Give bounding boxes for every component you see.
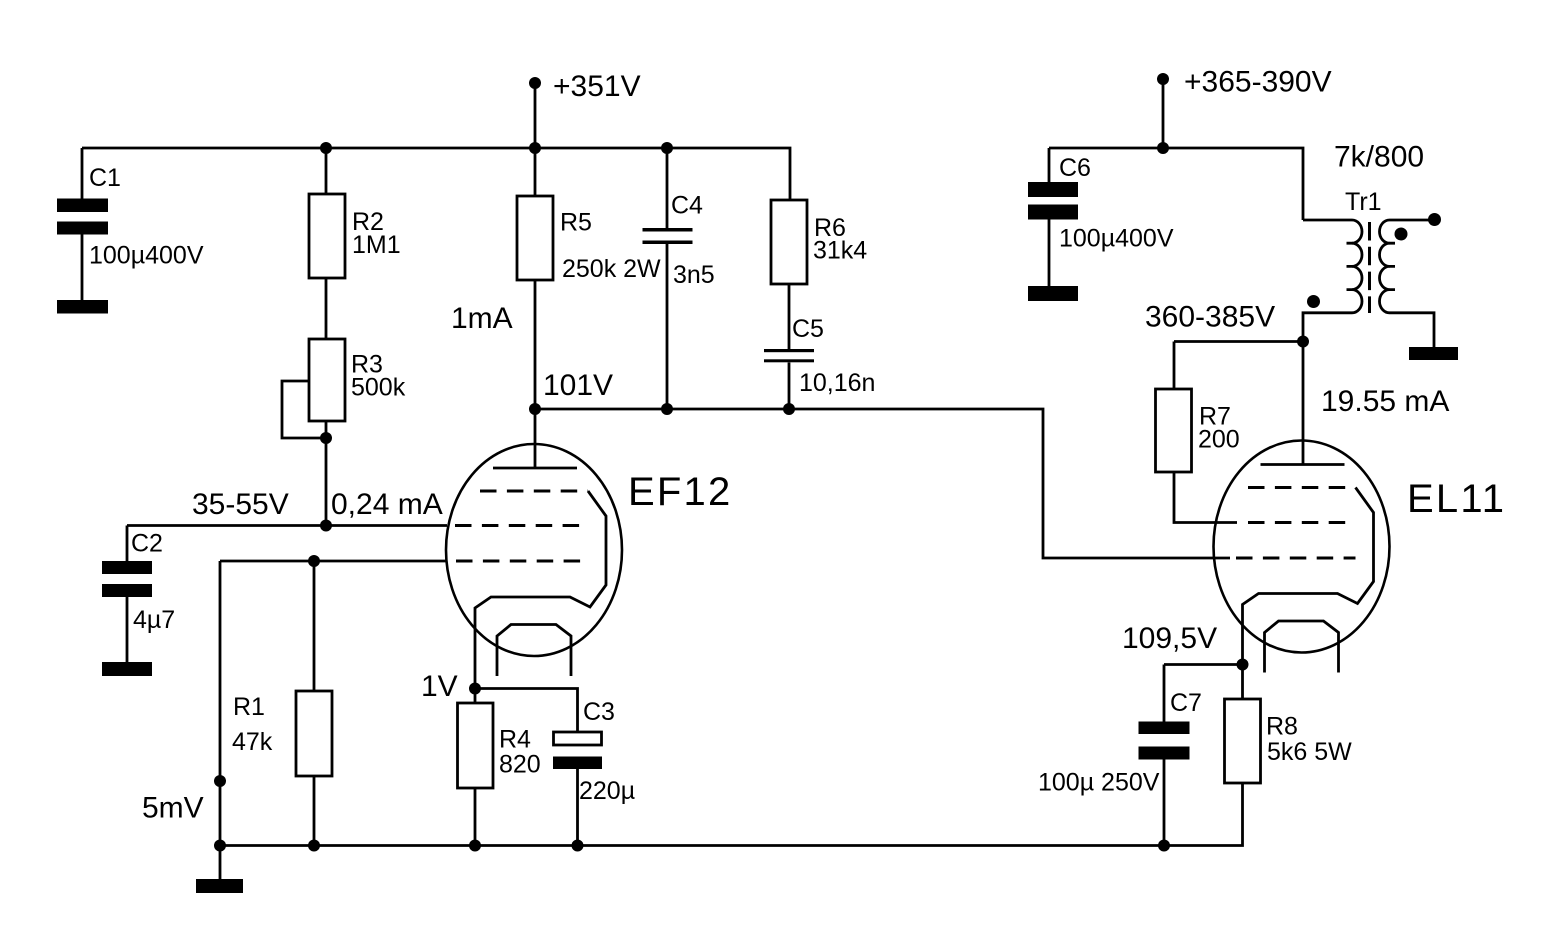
svg-text:109,5V: 109,5V [1122,622,1217,655]
svg-text:1M1: 1M1 [352,231,401,259]
svg-text:19.55 mA: 19.55 mA [1321,385,1449,418]
svg-text:10,16n: 10,16n [799,369,875,397]
svg-text:C3: C3 [583,698,615,726]
svg-text:C7: C7 [1170,689,1202,717]
svg-text:1V: 1V [421,670,458,703]
svg-text:1mA: 1mA [451,302,513,335]
svg-text:0,24 mA: 0,24 mA [331,488,443,521]
svg-text:EF12: EF12 [628,470,732,514]
svg-text:R4: R4 [499,726,531,754]
svg-text:31k4: 31k4 [813,237,867,265]
svg-text:R8: R8 [1266,713,1298,741]
svg-text:47k: 47k [232,728,273,756]
svg-text:101V: 101V [543,369,613,402]
svg-text:Tr1: Tr1 [1345,188,1382,216]
svg-text:7k/800: 7k/800 [1334,141,1424,174]
svg-text:+365-390V: +365-390V [1184,66,1332,99]
svg-text:200: 200 [1198,426,1240,454]
svg-text:R5: R5 [560,209,592,237]
svg-text:100µ400V: 100µ400V [1059,225,1174,253]
svg-text:C1: C1 [89,164,121,192]
svg-text:C4: C4 [671,192,703,220]
svg-text:3n5: 3n5 [673,261,715,289]
svg-text:5k6 5W: 5k6 5W [1267,738,1352,766]
svg-text:220µ: 220µ [579,777,635,805]
svg-text:4µ7: 4µ7 [133,606,175,634]
svg-text:360-385V: 360-385V [1145,301,1275,334]
svg-text:100µ400V: 100µ400V [89,242,204,270]
svg-text:C6: C6 [1059,154,1091,182]
svg-text:820: 820 [499,751,541,779]
svg-text:35-55V: 35-55V [192,488,289,521]
svg-text:+351V: +351V [553,70,641,103]
svg-text:C2: C2 [131,530,163,558]
svg-text:500k: 500k [351,374,406,402]
svg-text:250k 2W: 250k 2W [562,255,661,283]
svg-text:EL11: EL11 [1407,477,1506,521]
svg-text:5mV: 5mV [142,792,204,825]
svg-text:100µ 250V: 100µ 250V [1038,769,1160,797]
svg-text:R1: R1 [233,693,265,721]
svg-text:C5: C5 [792,315,824,343]
